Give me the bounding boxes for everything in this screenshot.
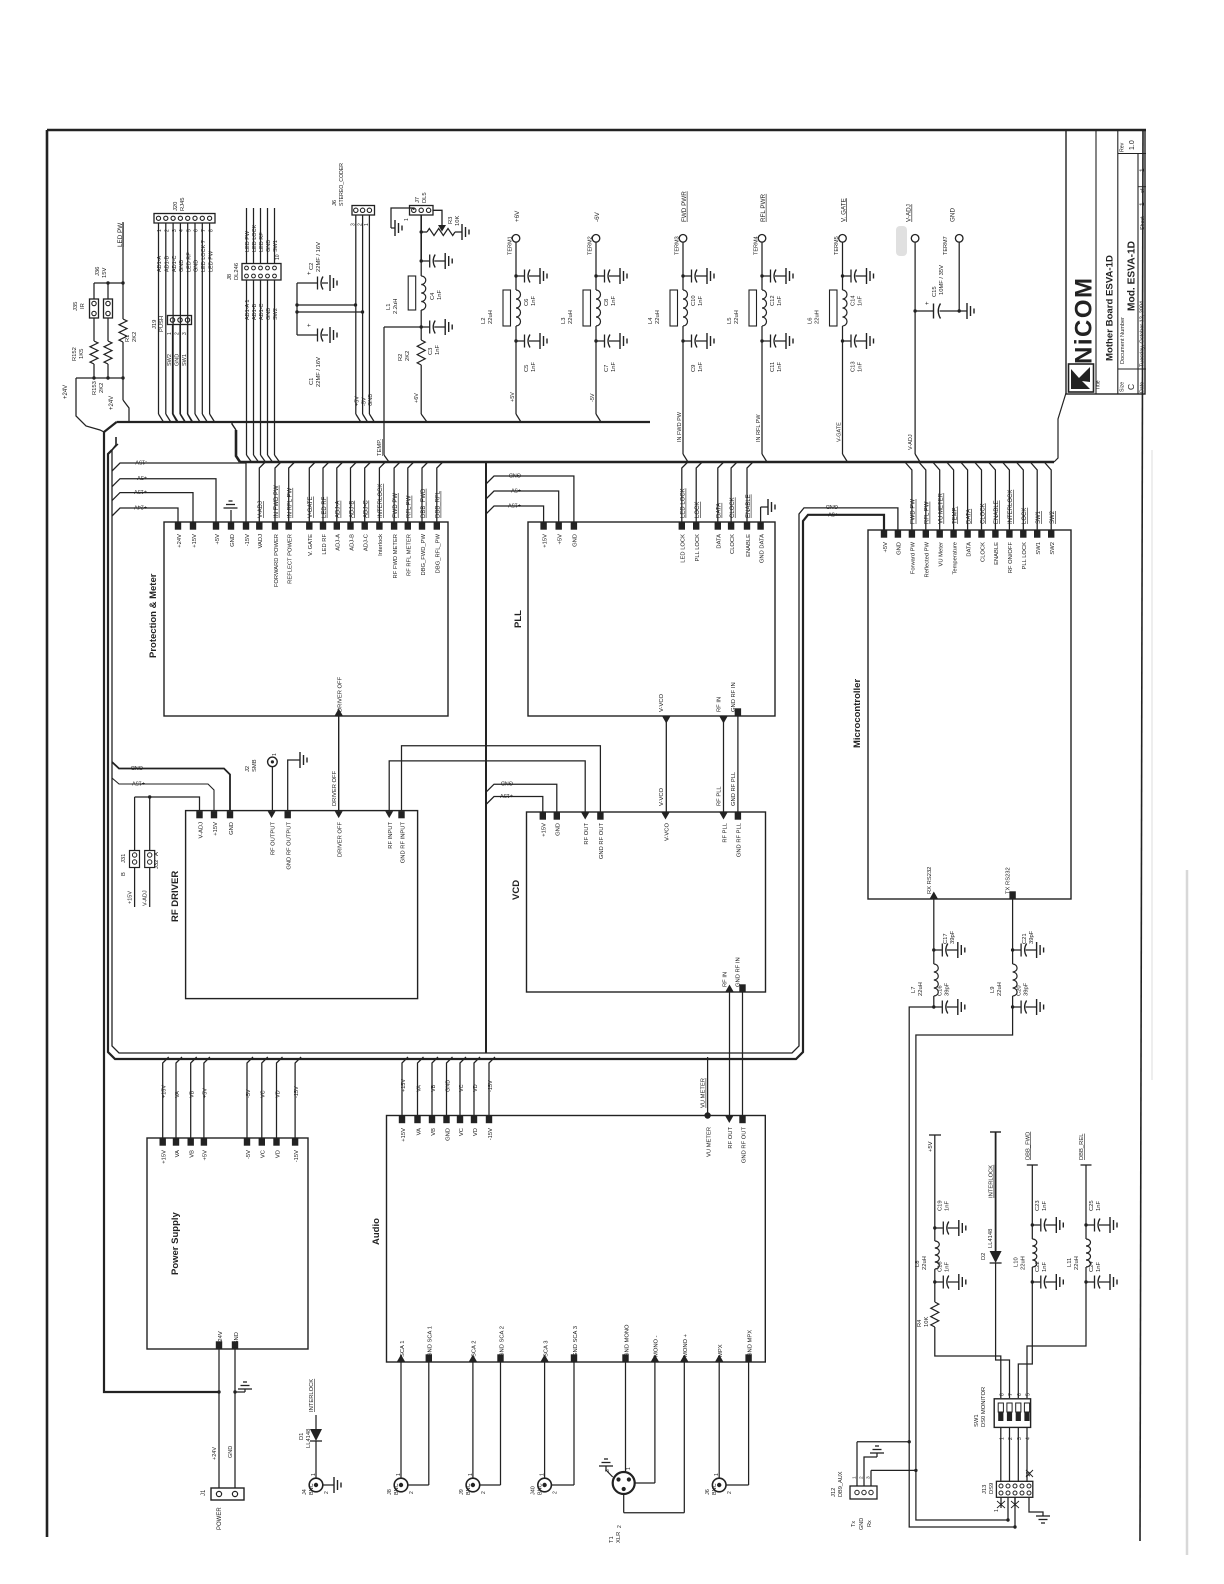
svg-text:DS0 MONITOR: DS0 MONITOR xyxy=(981,1387,987,1427)
svg-text:J6: J6 xyxy=(705,1489,711,1495)
svg-text:1nF: 1nF xyxy=(858,296,864,306)
connector J13 xyxy=(996,1481,1032,1497)
wire distribution bus xyxy=(485,462,487,1053)
svg-text:C: C xyxy=(1126,384,1136,390)
PLL bottom pins xyxy=(662,717,670,724)
svg-text:Tuesday, October 12, 2004: Tuesday, October 12, 2004 xyxy=(1140,301,1146,367)
svg-text:Sheet: Sheet xyxy=(1140,216,1146,230)
svg-text:SW1: SW1 xyxy=(974,1414,980,1427)
svg-text:L8: L8 xyxy=(915,1261,921,1267)
svg-text:GND: GND xyxy=(950,208,957,222)
capacitor C1 xyxy=(297,334,312,336)
svg-text:GND RF OUTPUT: GND RF OUTPUT xyxy=(287,822,293,870)
PLL pins xyxy=(540,523,546,530)
Power Supply fan xyxy=(163,1057,169,1138)
svg-text:GND: GND xyxy=(501,780,513,786)
svg-text:LL4148: LL4148 xyxy=(988,1229,994,1248)
svg-text:L3: L3 xyxy=(561,318,567,324)
svg-text:C14: C14 xyxy=(851,295,857,306)
svg-text:1nF: 1nF xyxy=(531,362,537,372)
terminal TERM5 column xyxy=(839,235,847,243)
svg-text:V. GATE: V. GATE xyxy=(840,198,847,222)
svg-text:V-ADJ: V-ADJ xyxy=(908,434,914,450)
svg-text:C3: C3 xyxy=(428,348,434,355)
svg-text:TERM4: TERM4 xyxy=(754,236,760,255)
svg-text:22uH: 22uH xyxy=(997,982,1003,996)
svg-text:Interlock: Interlock xyxy=(378,534,384,556)
switch SW1 xyxy=(994,1399,1030,1428)
svg-text:LOCK: LOCK xyxy=(695,502,701,518)
capacitor C15 xyxy=(915,310,933,312)
svg-text:6: 6 xyxy=(1017,1393,1023,1396)
svg-text:TERM2: TERM2 xyxy=(588,236,594,255)
svg-text:+5V: +5V xyxy=(883,542,889,553)
svg-text:VB: VB xyxy=(190,1150,196,1158)
svg-text:1nF: 1nF xyxy=(437,290,443,300)
svg-text:Microcontroller: Microcontroller xyxy=(852,679,863,748)
svg-text:2K2: 2K2 xyxy=(405,351,411,361)
svg-text:1nF: 1nF xyxy=(698,296,704,306)
svg-text:+5V: +5V xyxy=(828,511,838,517)
svg-text:RFL PW: RFL PW xyxy=(407,495,413,518)
svg-text:1: 1 xyxy=(468,1473,474,1476)
capacitor C19 xyxy=(933,1226,936,1229)
svg-text:ENABLE: ENABLE xyxy=(994,542,1000,565)
svg-text:GND DATA: GND DATA xyxy=(759,534,765,563)
PLL power fan xyxy=(486,476,574,522)
connector J4 BNC xyxy=(309,1478,323,1492)
svg-text:BNC: BNC xyxy=(538,1483,544,1495)
svg-text:Title: Title xyxy=(1096,380,1102,390)
svg-text:CLOCK: CLOCK xyxy=(980,503,986,524)
svg-text:DRIVER OFF: DRIVER OFF xyxy=(332,770,338,806)
capacitor C2 xyxy=(297,282,312,284)
svg-text:+15V: +15V xyxy=(192,534,198,548)
svg-text:SCA 1: SCA 1 xyxy=(400,1341,406,1357)
svg-text:39pF: 39pF xyxy=(945,982,951,996)
svg-text:TERM1: TERM1 xyxy=(508,236,514,255)
resistor R1 xyxy=(119,319,127,342)
Audio fan xyxy=(402,1057,408,1116)
svg-text:SW2: SW2 xyxy=(167,354,173,366)
svg-text:XLR: XLR xyxy=(616,1532,622,1543)
svg-text:LED LOCK: LED LOCK xyxy=(252,224,258,252)
svg-text:SW2: SW2 xyxy=(1050,510,1056,524)
svg-text:+5V: +5V xyxy=(510,392,516,402)
svg-text:A: A xyxy=(154,852,160,856)
svg-text:AD1-B: AD1-B xyxy=(252,303,258,320)
svg-text:C17: C17 xyxy=(943,933,949,944)
svg-text:+15V: +15V xyxy=(132,780,145,786)
connector J1 xyxy=(211,1488,244,1500)
svg-text:GND: GND xyxy=(194,260,200,272)
svg-text:SW1: SW1 xyxy=(1036,542,1042,555)
svg-text:2K2: 2K2 xyxy=(99,383,105,393)
svg-text:RF DRIVER: RF DRIVER xyxy=(170,871,181,922)
svg-text:+6V: +6V xyxy=(514,210,521,222)
svg-text:L7: L7 xyxy=(911,987,917,993)
connector J2 SMB xyxy=(268,757,278,767)
svg-text:BNC: BNC xyxy=(309,1483,315,1495)
svg-text:2: 2 xyxy=(481,1491,487,1494)
border frame xyxy=(46,130,49,1537)
svg-text:-5V: -5V xyxy=(361,397,367,406)
svg-text:RF PLL: RF PLL xyxy=(717,786,723,806)
svg-text:TERM7: TERM7 xyxy=(943,236,949,255)
svg-text:RF OUT: RF OUT xyxy=(584,823,590,845)
svg-text:C7: C7 xyxy=(604,365,610,372)
wire SCA3 xyxy=(544,1362,546,1478)
svg-text:GND: GND xyxy=(229,822,235,835)
svg-text:J9: J9 xyxy=(459,1489,465,1495)
wire VCD to Audio RF xyxy=(729,992,731,1116)
svg-text:GND: GND xyxy=(859,1518,865,1530)
svg-text:2: 2 xyxy=(165,229,171,232)
svg-text:+15V: +15V xyxy=(162,1150,168,1164)
svg-text:VA: VA xyxy=(175,1150,181,1157)
ground J13 xyxy=(1029,1497,1043,1516)
svg-text:J8: J8 xyxy=(227,274,233,280)
svg-text:1nF: 1nF xyxy=(1042,1262,1048,1272)
svg-text:Tx: Tx xyxy=(851,1521,857,1527)
Audio RF OUT pins xyxy=(725,1116,733,1123)
wire RF driver GND feed xyxy=(112,762,230,811)
svg-text:GND: GND xyxy=(897,542,903,555)
svg-text:22uH: 22uH xyxy=(922,1256,928,1270)
wire power loop inner xyxy=(112,444,898,1053)
svg-text:SW1: SW1 xyxy=(1036,510,1042,524)
svg-text:TX RS232: TX RS232 xyxy=(1006,867,1012,894)
svg-text:VC: VC xyxy=(459,1128,465,1136)
svg-text:LED RF: LED RF xyxy=(259,232,265,252)
block Microcontroller xyxy=(868,530,1071,899)
svg-text:C25: C25 xyxy=(1089,1200,1095,1211)
svg-text:+15V: +15V xyxy=(128,891,134,904)
svg-text:DRIVER OFF: DRIVER OFF xyxy=(338,676,344,712)
svg-text:V-GATE: V-GATE xyxy=(837,422,843,442)
svg-text:+5V: +5V xyxy=(558,534,564,545)
svg-text:DATA: DATA xyxy=(717,534,723,549)
VCD bottom pins xyxy=(726,985,734,992)
svg-text:DATA: DATA xyxy=(717,503,723,518)
svg-text:+15V: +15V xyxy=(508,502,521,508)
svg-text:VD: VD xyxy=(473,1084,479,1092)
svg-text:R152: R152 xyxy=(72,347,78,361)
svg-text:GND RF PLL: GND RF PLL xyxy=(737,822,743,857)
svg-text:2.2uH: 2.2uH xyxy=(393,299,399,314)
wire DRIVER OFF xyxy=(338,716,340,810)
Microcontroller signal fan xyxy=(905,462,912,530)
svg-text:SW2: SW2 xyxy=(1050,542,1056,555)
svg-text:L9: L9 xyxy=(990,987,996,993)
svg-text:1: 1 xyxy=(157,229,163,232)
svg-text:STEREO_CODER: STEREO_CODER xyxy=(339,163,345,206)
svg-text:SW2: SW2 xyxy=(273,308,279,320)
svg-text:GND RF IN: GND RF IN xyxy=(736,957,742,987)
wire J12 GND xyxy=(864,1457,874,1486)
svg-text:10K: 10K xyxy=(924,1317,930,1327)
svg-text:+15V: +15V xyxy=(401,1128,407,1142)
svg-text:DATA: DATA xyxy=(966,509,972,524)
svg-text:J2: J2 xyxy=(245,766,251,772)
svg-text:POWER: POWER xyxy=(217,1507,223,1530)
svg-text:J20: J20 xyxy=(173,202,179,211)
svg-text:4: 4 xyxy=(179,229,185,232)
svg-text:1: 1 xyxy=(994,1509,1000,1512)
svg-text:1nF: 1nF xyxy=(777,296,783,306)
wire bus A xyxy=(117,421,650,423)
wire TX RS232 xyxy=(1012,899,1014,950)
svg-text:CLOCK: CLOCK xyxy=(730,497,736,518)
svg-text:SW1: SW1 xyxy=(273,240,279,252)
svg-text:1.0: 1.0 xyxy=(1129,140,1136,150)
svg-text:L11: L11 xyxy=(1067,1258,1073,1267)
NiCOM logo xyxy=(1069,364,1094,392)
svg-text:L5: L5 xyxy=(727,318,733,324)
svg-text:VA: VA xyxy=(416,1128,422,1135)
wire RF INPUT xyxy=(389,761,585,812)
svg-text:VB: VB xyxy=(431,1128,437,1136)
svg-text:C24: C24 xyxy=(1089,1261,1095,1272)
svg-text:-15V: -15V xyxy=(245,534,251,546)
block PLL xyxy=(528,522,775,716)
svg-text:-15V: -15V xyxy=(488,1080,494,1092)
svg-text:22uH: 22uH xyxy=(488,310,494,324)
svg-text:DL5: DL5 xyxy=(422,192,428,203)
svg-text:VD: VD xyxy=(275,1150,281,1158)
svg-text:AD1-C: AD1-C xyxy=(259,303,265,320)
svg-text:Mod. ESVA-1D: Mod. ESVA-1D xyxy=(1127,241,1138,311)
connector J7 xyxy=(410,206,434,216)
wire V-ADJ feed xyxy=(135,797,200,811)
capacitor C20 xyxy=(1012,996,1014,1007)
svg-text:NiCOM: NiCOM xyxy=(1071,277,1098,365)
svg-text:INTERLOCK: INTERLOCK xyxy=(378,484,384,518)
svg-text:22uH: 22uH xyxy=(1020,1256,1026,1270)
svg-text:J8: J8 xyxy=(387,1489,393,1495)
wire MONO xyxy=(625,1362,627,1472)
svg-text:J6: J6 xyxy=(332,200,338,206)
svg-text:2: 2 xyxy=(727,1491,733,1494)
svg-text:+15V: +15V xyxy=(500,792,513,798)
svg-text:22uH: 22uH xyxy=(655,310,661,324)
capacitor C16 xyxy=(933,996,935,1007)
svg-text:BNC: BNC xyxy=(466,1483,472,1495)
svg-text:GND: GND xyxy=(234,1332,240,1345)
svg-text:AD1-A 1: AD1-A 1 xyxy=(245,300,251,320)
svg-text:GND: GND xyxy=(228,1446,234,1458)
wire RF driver +15V feed xyxy=(112,778,214,811)
svg-text:5: 5 xyxy=(1026,1393,1032,1396)
svg-text:+24V: +24V xyxy=(109,396,115,410)
svg-text:J1: J1 xyxy=(201,1489,207,1496)
svg-text:-15V: -15V xyxy=(135,459,147,465)
svg-text:2: 2 xyxy=(617,1525,623,1528)
svg-text:L2: L2 xyxy=(481,318,487,324)
svg-text:8: 8 xyxy=(999,1393,1005,1396)
terminal TERM2 column xyxy=(592,235,600,243)
svg-text:J12: J12 xyxy=(831,1488,837,1497)
svg-text:ENABLE: ENABLE xyxy=(746,534,752,557)
svg-text:C22: C22 xyxy=(1035,1261,1041,1272)
svg-text:J13: J13 xyxy=(982,1485,988,1494)
inductor L1 xyxy=(420,261,422,276)
jumper J32 xyxy=(149,797,151,851)
capacitor C21 xyxy=(1011,948,1014,951)
svg-text:LED RF: LED RF xyxy=(186,252,192,272)
P&M power fan xyxy=(112,463,246,522)
svg-text:DBB_FWD: DBB_FWD xyxy=(1025,1132,1031,1160)
svg-text:AD1-B: AD1-B xyxy=(165,255,171,272)
wire J7 column top xyxy=(420,232,422,261)
svg-text:GND: GND xyxy=(573,534,579,547)
svg-text:C12: C12 xyxy=(770,295,776,306)
svg-text:39pF: 39pF xyxy=(1029,930,1035,944)
PLL signal fan xyxy=(682,462,688,522)
svg-text:+: + xyxy=(925,301,931,305)
svg-text:GND: GND xyxy=(230,534,236,547)
svg-text:BNC: BNC xyxy=(712,1483,718,1495)
svg-text:IN RFL PW: IN RFL PW xyxy=(288,488,294,518)
svg-text:V-VCO: V-VCO xyxy=(659,693,665,712)
wire +24V rail xyxy=(104,432,219,1392)
svg-text:DRIVER OFF: DRIVER OFF xyxy=(338,822,344,858)
svg-text:C1: C1 xyxy=(309,378,315,385)
svg-text:C16: C16 xyxy=(938,985,944,996)
svg-text:1nF: 1nF xyxy=(531,296,537,306)
svg-text:RF IN: RF IN xyxy=(723,972,729,987)
svg-text:R153: R153 xyxy=(92,381,98,395)
svg-text:LOCK: LOCK xyxy=(1022,508,1028,524)
svg-text:1: 1 xyxy=(714,1473,720,1476)
svg-text:VC: VC xyxy=(459,1084,465,1092)
svg-text:1nF: 1nF xyxy=(945,1201,951,1211)
svg-text:DBB_FWD: DBB_FWD xyxy=(421,488,427,518)
svg-text:-5V: -5V xyxy=(246,1089,252,1098)
svg-text:VB: VB xyxy=(190,1090,196,1098)
svg-text:+24V: +24V xyxy=(177,534,183,548)
svg-text:J31: J31 xyxy=(121,854,127,863)
svg-text:AD1-C: AD1-C xyxy=(172,255,178,272)
svg-text:1nF: 1nF xyxy=(1096,1262,1102,1272)
svg-text:-5V: -5V xyxy=(246,1150,252,1159)
svg-text:GND: GND xyxy=(266,240,272,252)
svg-text:+24V: +24V xyxy=(134,504,147,510)
svg-text:VD: VD xyxy=(275,1090,281,1098)
svg-text:Protection & Meter: Protection & Meter xyxy=(148,573,159,658)
svg-text:of: of xyxy=(1140,188,1146,193)
wire MPX xyxy=(718,1362,720,1478)
svg-text:C15: C15 xyxy=(932,286,938,297)
svg-text:7: 7 xyxy=(1008,1393,1014,1396)
svg-text:MONO +: MONO + xyxy=(683,1333,689,1357)
svg-text:2: 2 xyxy=(553,1491,559,1494)
resistor R2 xyxy=(420,327,422,340)
P&M DRIVER OFF pin xyxy=(335,709,343,716)
svg-text:+15V: +15V xyxy=(213,822,219,836)
inductor L7 xyxy=(933,950,935,964)
wire C1C2 link xyxy=(296,283,298,335)
svg-text:ENABLE: ENABLE xyxy=(994,500,1000,524)
wire V-VCO xyxy=(665,716,667,812)
svg-text:SCA 3: SCA 3 xyxy=(543,1341,549,1357)
svg-text:C9: C9 xyxy=(691,365,697,372)
svg-text:DB9_AUX: DB9_AUX xyxy=(838,1471,844,1497)
svg-text:-15V: -15V xyxy=(294,1086,300,1098)
svg-text:GND: GND xyxy=(445,1080,451,1092)
svg-text:1K5: 1K5 xyxy=(79,349,85,359)
resistor R152 xyxy=(93,318,95,341)
capacitor C3 xyxy=(420,310,422,327)
svg-text:V-ADJ: V-ADJ xyxy=(906,204,913,222)
block Protection and Meter xyxy=(164,522,448,716)
svg-text:+5V: +5V xyxy=(215,534,221,545)
svg-text:C18: C18 xyxy=(938,1261,944,1272)
svg-text:ADJ-C: ADJ-C xyxy=(364,534,370,551)
jumper J36 xyxy=(104,299,113,318)
svg-text:R3: R3 xyxy=(448,217,454,224)
svg-text:MONO -: MONO - xyxy=(654,1335,660,1357)
svg-text:C13: C13 xyxy=(851,361,857,372)
svg-text:C21: C21 xyxy=(1022,933,1028,944)
svg-text:1nF: 1nF xyxy=(698,362,704,372)
svg-text:1: 1 xyxy=(167,332,173,335)
svg-text:J19: J19 xyxy=(152,320,158,329)
svg-text:C8: C8 xyxy=(604,299,610,306)
svg-text:TEMP.: TEMP. xyxy=(377,439,383,456)
svg-text:10K: 10K xyxy=(455,216,461,226)
terminal TERM3 column xyxy=(679,235,687,243)
svg-text:DATA: DATA xyxy=(966,542,972,557)
svg-text:RF RFL METER: RF RFL METER xyxy=(407,534,413,576)
wire J6 wires xyxy=(355,215,357,414)
svg-text:VU Meter: VU Meter xyxy=(939,542,945,567)
svg-text:1: 1 xyxy=(396,1473,402,1476)
wire J20 wires xyxy=(158,223,160,414)
svg-text:LED PW: LED PW xyxy=(245,230,251,252)
svg-text:IN FWD PW: IN FWD PW xyxy=(274,485,280,518)
svg-text:FWD PWR: FWD PWR xyxy=(681,191,688,222)
svg-text:PUSH: PUSH xyxy=(159,316,165,332)
wire RF PLL xyxy=(723,716,725,812)
svg-text:PLL: PLL xyxy=(513,610,524,628)
svg-text:22uH: 22uH xyxy=(568,310,574,324)
svg-text:VCD: VCD xyxy=(511,880,522,900)
svg-text:RF OUT: RF OUT xyxy=(728,1127,734,1149)
VCD pins xyxy=(540,813,546,820)
svg-text:DBG_FWD_PW: DBG_FWD_PW xyxy=(421,533,427,575)
svg-text:T1: T1 xyxy=(609,1536,615,1543)
svg-text:RFL PW: RFL PW xyxy=(925,501,931,524)
svg-text:C19: C19 xyxy=(938,1200,944,1211)
Power Supply pins xyxy=(160,1139,166,1146)
capacitor C18 xyxy=(934,1269,936,1282)
svg-text:R4: R4 xyxy=(917,1319,923,1327)
svg-text:-15V: -15V xyxy=(488,1128,494,1140)
svg-text:DBG_RFL_PW: DBG_RFL_PW xyxy=(436,533,442,573)
svg-text:RX RS232: RX RS232 xyxy=(927,867,933,894)
svg-text:8: 8 xyxy=(208,229,214,232)
wire power loop outer xyxy=(108,450,884,1059)
svg-text:GND: GND xyxy=(368,394,374,406)
wire GND RF PLL xyxy=(737,716,739,812)
svg-text:39pF: 39pF xyxy=(950,930,956,944)
svg-text:IN RFL PW: IN RFL PW xyxy=(756,414,762,442)
svg-text:+5V: +5V xyxy=(928,1141,934,1152)
svg-text:GND: GND xyxy=(509,472,521,478)
svg-text:RJ45: RJ45 xyxy=(180,197,186,211)
svg-text:VA: VA xyxy=(416,1085,422,1092)
